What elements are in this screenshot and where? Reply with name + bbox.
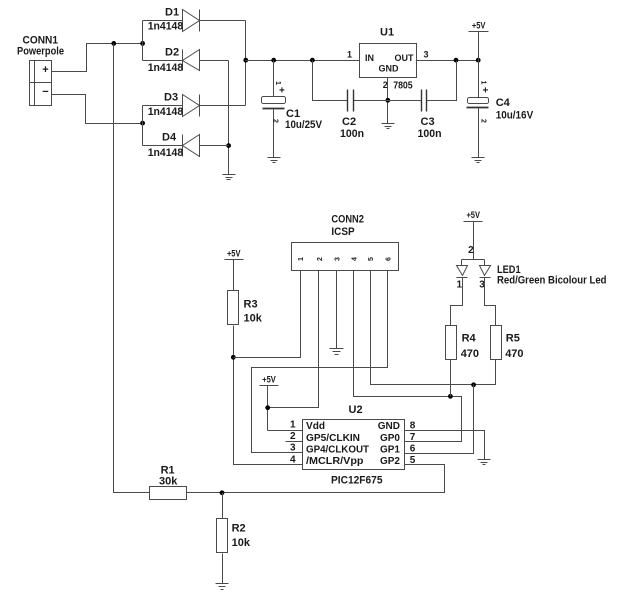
resistor R1 (150, 465, 187, 500)
svg-text:/MCLR/Vpp: /MCLR/Vpp (306, 456, 364, 467)
svg-text:2: 2 (272, 119, 279, 123)
wire bridge left vertical D3-D4 (142, 106, 144, 146)
svg-text:1n4148: 1n4148 (148, 21, 184, 33)
svg-text:PIC12F675: PIC12F675 (331, 474, 383, 486)
svg-text:+: + (42, 64, 48, 76)
svg-text:GP5/CLKIN: GP5/CLKIN (306, 433, 360, 444)
svg-text:2: 2 (290, 431, 296, 442)
wire ICSP pin1 to R3 net (234, 271, 301, 358)
svg-text:D1: D1 (165, 7, 179, 19)
wire U1 gnd to C3 (388, 100, 422, 102)
node C4 +5V tap (476, 58, 481, 63)
LED LED1 bicolour (457, 245, 607, 290)
node R3 pin1 junction (231, 355, 236, 360)
node C2 tap (310, 58, 315, 63)
node R1 R2 junction (220, 490, 225, 495)
resistor R3 (228, 291, 263, 325)
svg-text:+5V: +5V (472, 21, 486, 31)
wire ICSP pin3 to ground (336, 271, 338, 349)
wire bridge right vertical D1-D3 cathodes (245, 21, 247, 106)
svg-text:D4: D4 (162, 132, 177, 144)
wire R3 bottom to MCLR pin4 (234, 326, 303, 465)
power +5V LED1 (464, 210, 483, 260)
capacitor C3 (418, 90, 442, 140)
svg-text:7805: 7805 (393, 80, 413, 91)
svg-text:1: 1 (274, 81, 281, 85)
wire main rail left of U1 (246, 60, 360, 62)
ground U1 (382, 124, 395, 129)
ground C4 (472, 158, 485, 163)
IC U2 PIC12F675 (290, 404, 416, 486)
svg-text:+5V: +5V (227, 248, 241, 258)
svg-text:10u/16V: 10u/16V (496, 110, 534, 122)
svg-text:5: 5 (368, 257, 375, 261)
diode D1 (143, 7, 246, 33)
node Vdd junction (265, 405, 270, 410)
svg-text:U1: U1 (380, 27, 394, 39)
node R4 GP0 junction (448, 394, 453, 399)
node rectified output junction (243, 58, 248, 63)
resistor R2 (217, 493, 251, 553)
svg-text:8: 8 (410, 420, 416, 431)
wire LED1 cathode1 to R4 (451, 278, 463, 326)
svg-text:1: 1 (298, 257, 305, 261)
svg-text:R3: R3 (244, 298, 258, 310)
wire CONN1 plus (52, 44, 143, 72)
node U1 gnd junction (385, 98, 390, 103)
svg-text:1: 1 (480, 81, 487, 85)
capacitor C2 (340, 90, 364, 140)
svg-text:2: 2 (480, 119, 487, 123)
svg-text:GP1: GP1 (380, 444, 400, 455)
svg-text:GND: GND (378, 421, 400, 432)
node C3 tap (454, 58, 459, 63)
wire R4 bottom (450, 360, 452, 397)
connector CONN2 ICSP (292, 213, 399, 270)
svg-text:1: 1 (457, 280, 463, 291)
wire U1 gnd stub (387, 78, 389, 124)
wire LED1 cathode3 to R5 (485, 278, 496, 326)
svg-text:Powerpole: Powerpole (17, 46, 64, 58)
wire CONN1 minus (52, 95, 143, 124)
wire C2 tap down and to C2 (313, 61, 348, 101)
wire ICSP pin6 to GP4 (252, 271, 388, 453)
svg-text:R5: R5 (506, 333, 520, 345)
power +5V U2 (260, 374, 279, 430)
wire ICSP pin5 to R5 (371, 271, 496, 385)
wire long vertical to R1 (114, 44, 150, 493)
svg-text:470: 470 (461, 348, 479, 360)
svg-text:CONN2: CONN2 (331, 213, 364, 225)
svg-text:3: 3 (423, 49, 428, 59)
resistor R4 (446, 326, 480, 360)
node C1 tap (271, 58, 276, 63)
wire Vdd pin1 (268, 430, 303, 432)
svg-text:C4: C4 (496, 97, 511, 109)
ground bridge (223, 175, 236, 180)
diode D2 (143, 47, 229, 74)
svg-text:Vdd: Vdd (306, 421, 325, 432)
svg-text:GND: GND (379, 64, 400, 74)
svg-text:OUT: OUT (395, 53, 415, 63)
svg-text:1n4148: 1n4148 (148, 106, 184, 118)
svg-text:30k: 30k (159, 476, 178, 488)
svg-text:4: 4 (352, 257, 359, 261)
svg-text:1n4148: 1n4148 (148, 62, 184, 74)
svg-text:10k: 10k (244, 312, 263, 324)
power +5V top right (469, 21, 489, 61)
svg-text:10k: 10k (232, 537, 251, 549)
wire GP1 riser (405, 385, 474, 454)
node bridge AC1 (140, 41, 145, 46)
wire C2 to U1 gnd (354, 100, 388, 102)
svg-text:1: 1 (347, 49, 352, 59)
svg-text:+: + (279, 86, 285, 97)
connector CONN1 (30, 61, 52, 106)
svg-text:R4: R4 (462, 333, 477, 345)
svg-text:4: 4 (290, 454, 296, 465)
svg-text:GP2: GP2 (380, 456, 400, 467)
svg-text:3: 3 (334, 257, 341, 261)
ground C1 (268, 158, 281, 163)
wire main rail right of U1 (417, 60, 479, 62)
wire ICSP pin2 to +5V net (268, 271, 319, 408)
ground U2 (478, 460, 491, 465)
power +5V R3 (225, 248, 244, 290)
svg-text:6: 6 (410, 444, 416, 455)
svg-text:D3: D3 (164, 92, 178, 104)
wire bridge mid vertical D2-D4 anodes to ground (228, 61, 230, 175)
svg-text:6: 6 (386, 257, 393, 261)
svg-text:D2: D2 (165, 47, 179, 59)
svg-text:U2: U2 (349, 404, 363, 416)
svg-text:1: 1 (290, 420, 296, 431)
svg-text:10u/25V: 10u/25V (285, 119, 323, 131)
wire C3 to C3 tap (427, 61, 457, 101)
svg-text:3: 3 (290, 443, 296, 454)
svg-text:−: − (42, 86, 48, 98)
svg-text:Red/Green Bicolour Led: Red/Green Bicolour Led (497, 275, 607, 287)
wire bridge left vertical D1-D2 (142, 21, 144, 61)
ground ICSP (330, 349, 344, 355)
svg-text:ICSP: ICSP (331, 226, 354, 238)
svg-text:+5V: +5V (466, 210, 480, 220)
capacitor C4 (467, 61, 534, 158)
wire GND pin8 to ground (405, 431, 485, 460)
node plus tap junction (111, 41, 116, 46)
svg-text:100n: 100n (418, 128, 442, 140)
svg-text:2: 2 (468, 245, 474, 256)
svg-text:C2: C2 (342, 116, 356, 128)
svg-text:1n4148: 1n4148 (148, 147, 184, 159)
svg-text:C3: C3 (421, 116, 435, 128)
diode D4 (143, 132, 229, 160)
resistor R5 (491, 326, 524, 360)
svg-text:R2: R2 (232, 522, 246, 534)
svg-text:470: 470 (505, 348, 523, 360)
svg-text:7: 7 (410, 432, 416, 443)
node bridge AC2 (140, 121, 145, 126)
pin GP5 stub (286, 441, 303, 443)
svg-text:IN: IN (365, 53, 374, 63)
node D4 anode junction (226, 143, 231, 148)
ground R2 (216, 584, 229, 590)
svg-text:+5V: +5V (262, 374, 276, 384)
wire R2 to ground (222, 554, 224, 584)
capacitor C1 (262, 61, 323, 158)
svg-text:GP0: GP0 (380, 433, 400, 444)
svg-text:2: 2 (317, 257, 324, 261)
diode D3 (143, 92, 246, 118)
wire ICSP pin4 to GP0 (354, 271, 462, 442)
svg-text:100n: 100n (340, 128, 364, 140)
svg-text:GP4/CLKOUT: GP4/CLKOUT (306, 444, 369, 455)
node R5 GP1 junction (471, 382, 476, 387)
svg-text:+: + (483, 85, 489, 96)
regulator U1 7805 (347, 27, 429, 92)
wire GP2 to R1 R2 net (187, 465, 445, 493)
